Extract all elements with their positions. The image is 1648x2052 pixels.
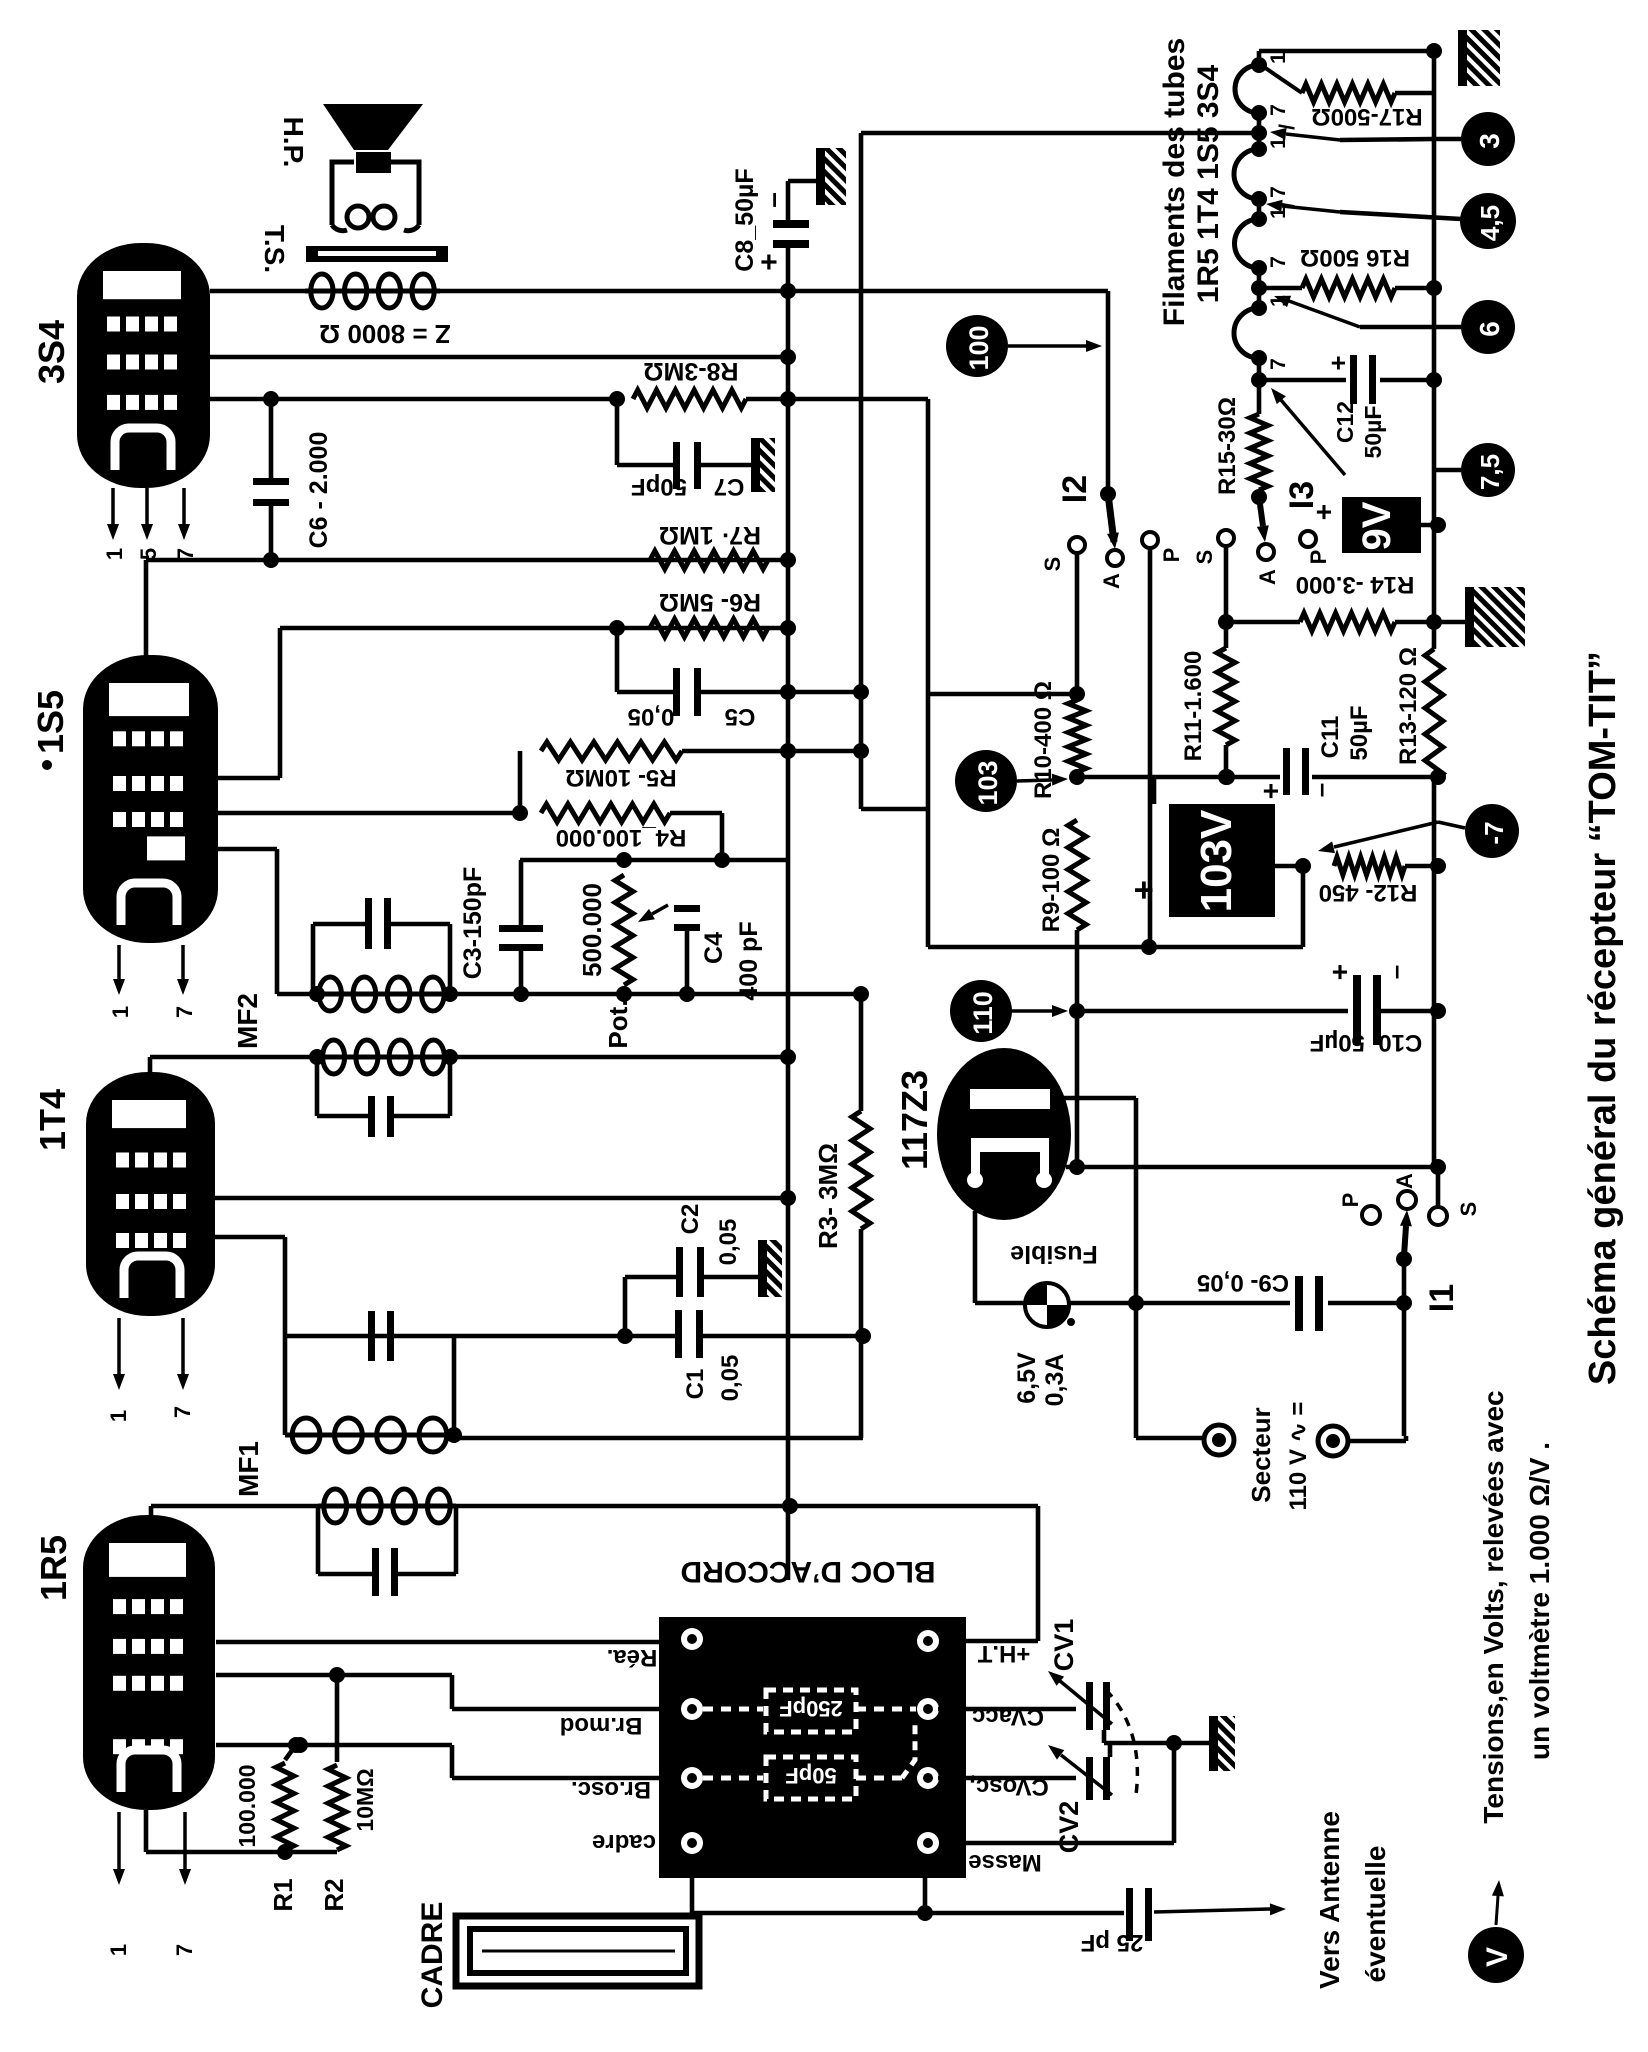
- capacitor C3 150pF: [519, 860, 524, 927]
- gang dashed link: [1106, 1690, 1137, 1795]
- svg-text:7: 7: [1267, 186, 1290, 198]
- wire MF2 to 1T4 grid and rail: [150, 1055, 788, 1060]
- wire 117Z3 plate lead: [1050, 1096, 1136, 1101]
- svg-text:Schéma général du récepteur: Schéma général du récepteur “TOM-TIT”: [1582, 651, 1624, 1385]
- svg-text:0,05: 0,05: [628, 703, 675, 730]
- V circle: [1468, 1927, 1524, 1983]
- svg-text:–: –: [1380, 965, 1410, 979]
- svg-text:9V: 9V: [1355, 501, 1399, 550]
- svg-text:-7: -7: [1479, 821, 1509, 844]
- svg-text:Masse: Masse: [968, 1849, 1041, 1876]
- svg-text:A: A: [1099, 573, 1124, 589]
- svg-text:C2: C2: [677, 1204, 704, 1235]
- svg-text:C5: C5: [725, 703, 756, 730]
- svg-text:500.000: 500.000: [577, 883, 607, 977]
- wire AVC bottom y994: [450, 992, 861, 997]
- ground C2: [758, 1240, 782, 1297]
- svg-text:6,5V: 6,5V: [1013, 1352, 1041, 1404]
- svg-text:+: +: [1324, 964, 1355, 980]
- capacitor C6 2000: [269, 399, 274, 480]
- svg-text:C6 - 2.000: C6 - 2.000: [305, 432, 333, 549]
- battery 9V: [1342, 497, 1421, 553]
- svg-text:1: 1: [106, 1410, 131, 1422]
- svg-text:3S4: 3S4: [31, 320, 72, 384]
- capacitor C1 0,05: [675, 1310, 682, 1358]
- svg-text:1T4: 1T4: [32, 1089, 73, 1151]
- wire 1R5 to Rea terminal: [216, 1640, 681, 1645]
- svg-text:7: 7: [1267, 358, 1290, 370]
- svg-text:C10. 50µF: C10. 50µF: [1310, 1029, 1423, 1056]
- tube 117Z3 rectifier: [937, 1048, 1071, 1220]
- svg-text:100: 100: [964, 325, 994, 370]
- rail (vertical bus x788): [786, 291, 791, 1580]
- svg-text:0,3A: 0,3A: [1041, 1354, 1069, 1407]
- svg-text:50pF: 50pF: [631, 473, 687, 500]
- svg-text:R12- 450: R12- 450: [1319, 879, 1418, 906]
- rail B x861: [859, 133, 864, 809]
- wire AVC top: [520, 858, 788, 863]
- svg-text:Réa.: Réa.: [607, 1644, 658, 1671]
- svg-text:P: P: [1306, 550, 1331, 565]
- svg-text:100.000: 100.000: [234, 1764, 260, 1847]
- svg-text:50µF: 50µF: [1346, 705, 1373, 760]
- svg-text:R8-3MΩ: R8-3MΩ: [643, 357, 738, 385]
- circled 3: [1340, 139, 1434, 140]
- pins 1 5 7 of 3S4: [111, 488, 115, 524]
- ground R14: [1465, 587, 1525, 647]
- wire y809: [861, 807, 928, 812]
- svg-text:R9-100 Ω: R9-100 Ω: [1038, 828, 1065, 933]
- variable capacitor CV1: [938, 1707, 1076, 1712]
- pins 1 7 of 1R5: [117, 1812, 121, 1869]
- fuse and heater wire: [973, 1211, 978, 1303]
- svg-text:7: 7: [1267, 256, 1290, 268]
- resistor R10 400ohm: [1068, 700, 1086, 772]
- wire MF1 to R3/C1 node: [454, 1436, 863, 1441]
- filament 1R5: [1234, 308, 1259, 358]
- terminal cadre: [681, 1832, 703, 1854]
- BLOC D ACCORD tuning block: [659, 1617, 966, 1878]
- svg-text:BLOC D’ACCORD: BLOC D’ACCORD: [681, 1555, 936, 1588]
- svg-text:1R5 1T4 1S5 3S4: 1R5 1T4 1S5 3S4: [1192, 64, 1225, 303]
- svg-text:CV2: CV2: [1054, 1801, 1084, 1854]
- resistor R1 100.000: [288, 1737, 304, 1753]
- svg-text:R11-1.600: R11-1.600: [1180, 651, 1207, 762]
- svg-text:MF2: MF2: [232, 993, 263, 1049]
- pins 1 7 of 1S5: [117, 945, 121, 979]
- battery 103V: [1169, 804, 1275, 917]
- terminal Br.mod: [681, 1698, 703, 1720]
- svg-text:S: S: [1040, 557, 1065, 572]
- svg-text:H.P.: H.P.: [278, 117, 309, 168]
- filament 1T4: [1234, 219, 1259, 268]
- svg-text:117Z3: 117Z3: [894, 1070, 935, 1170]
- resistor R4 100.000: [541, 804, 670, 822]
- svg-text:un voltmètre 1.000 Ω/V .: un voltmètre 1.000 Ω/V .: [1524, 1442, 1555, 1760]
- wire 103V line y777: [1077, 775, 1280, 780]
- resistor R14 3000: [1224, 546, 1229, 648]
- terminal +H.T: [917, 1630, 939, 1652]
- circled 6: [1360, 325, 1461, 330]
- fusible symbol: [1025, 1283, 1069, 1327]
- MF2 secondary tank: [317, 1055, 450, 1060]
- wire 1R5 to Br.mod: [216, 1673, 452, 1678]
- svg-text:Br.osc.: Br.osc.: [571, 1776, 651, 1803]
- svg-text:Secteur: Secteur: [1246, 1407, 1276, 1502]
- svg-text:4,5: 4,5: [1475, 205, 1505, 241]
- bias vertical x928: [926, 399, 931, 947]
- svg-text:C12: C12: [1332, 401, 1358, 443]
- svg-text:1: 1: [108, 1006, 133, 1018]
- tube 3S4 (output): [77, 243, 210, 488]
- wire to 1S5 top: [144, 560, 149, 660]
- resistor R7 1Mohm: [650, 551, 768, 569]
- svg-text:R7· 1MΩ: R7· 1MΩ: [659, 521, 761, 549]
- svg-text:Filaments des tubes: Filaments des tubes: [1158, 38, 1191, 326]
- svg-text:7: 7: [170, 1406, 195, 1418]
- svg-text:110: 110: [968, 991, 998, 1035]
- resistor R13 120ohm in rail: [1425, 649, 1443, 780]
- svg-text:7: 7: [1267, 104, 1290, 116]
- circled -7: [1465, 804, 1519, 858]
- svg-text:Br.mod: Br.mod: [560, 1712, 643, 1739]
- svg-text:cadre: cadre: [592, 1829, 656, 1856]
- svg-text:Vers Antenne: Vers Antenne: [1314, 1811, 1345, 1989]
- wire +HT line y1507: [456, 1504, 1038, 1509]
- svg-text:–: –: [757, 192, 788, 208]
- resistor R6 5Mohm: [650, 619, 768, 637]
- svg-text:Tensions,en Volts, relevées av: Tensions,en Volts, relevées avec: [1478, 1390, 1509, 1823]
- svg-text:/: /: [1276, 124, 1299, 130]
- Secteur terminals: [1136, 1436, 1204, 1441]
- svg-text:+: +: [1323, 355, 1353, 370]
- rail right x1434: [1432, 51, 1437, 649]
- svg-text:V: V: [1481, 1947, 1514, 1967]
- resistor R12 450: [1334, 857, 1405, 875]
- capacitor C8 50uF: [773, 220, 809, 228]
- tube 1R5 (converter): [83, 1515, 215, 1810]
- ground C7: [751, 438, 775, 492]
- svg-text:C11: C11: [1317, 716, 1344, 759]
- filament 1S5: [1234, 149, 1259, 199]
- svg-text:103V: 103V: [1192, 809, 1241, 912]
- circled 7,5: [1434, 468, 1461, 473]
- wire 1S5 grid3 line: [218, 811, 520, 816]
- capacitor C11 50uF: [1283, 748, 1290, 795]
- svg-text:1: 1: [106, 1944, 131, 1956]
- wire 3S4 plate to T.S. and HT rail: [210, 289, 305, 294]
- capacitor C2 0,05: [623, 1277, 628, 1336]
- svg-text:400 pF: 400 pF: [735, 921, 763, 1000]
- terminal Br.osc: [681, 1767, 703, 1789]
- svg-text:–: –: [1305, 783, 1335, 797]
- resistor R17 500ohm: [1261, 65, 1302, 93]
- filament chain: [1257, 51, 1262, 65]
- CV rotors to ground: [1102, 1730, 1107, 1743]
- svg-text:R1: R1: [268, 1878, 298, 1911]
- ground filament top: [1458, 30, 1500, 86]
- svg-text:+: +: [753, 253, 786, 271]
- svg-text:+: +: [1125, 880, 1163, 900]
- wire to 25pF: [692, 1911, 1124, 1916]
- svg-text:A: A: [1392, 1173, 1417, 1189]
- capacitor C4 400pF: [674, 905, 700, 912]
- svg-text:C3-150pF: C3-150pF: [459, 867, 487, 980]
- variable capacitor CV2: [938, 1776, 1076, 1781]
- svg-text:7: 7: [172, 1944, 197, 1956]
- svg-text:3: 3: [1474, 133, 1505, 149]
- CADRE frame antenna: [456, 1916, 699, 1986]
- wire 1S5 diode to MF2: [218, 847, 277, 852]
- wire 117Z3 cathode line: [1066, 1165, 1438, 1170]
- MF2 primary tank: [313, 922, 365, 927]
- svg-text:C4: C4: [700, 932, 728, 964]
- resistor R15 30ohm: [1250, 414, 1268, 490]
- svg-text:10MΩ: 10MΩ: [352, 1768, 378, 1831]
- svg-text:25 pF: 25 pF: [1081, 1929, 1144, 1956]
- pins 1 7 of 1T4: [117, 1318, 121, 1374]
- capacitor 25pF: [1126, 1888, 1133, 1941]
- svg-text:110 V ∿ =: 110 V ∿ =: [1285, 1402, 1312, 1511]
- svg-text:CV1: CV1: [1049, 1619, 1079, 1672]
- svg-text:7: 7: [172, 1006, 197, 1018]
- svg-text:Z = 8000 Ω: Z = 8000 Ω: [319, 319, 450, 349]
- svg-text:Pot.: Pot.: [603, 999, 633, 1048]
- wire y694 to R10: [928, 692, 1077, 697]
- svg-text:MF1: MF1: [233, 1441, 264, 1497]
- svg-text:C9- 0,05: C9- 0,05: [1197, 1269, 1289, 1296]
- ground CV: [1209, 1716, 1235, 1771]
- filament 3S4: [1235, 65, 1259, 113]
- capacitor C5 0,05: [615, 628, 620, 692]
- capacitor C12 50uF: [1259, 378, 1346, 383]
- svg-text:I2: I2: [1056, 475, 1094, 503]
- wire HT top y287: [788, 289, 1108, 294]
- MF1 primary tank: [149, 1506, 154, 1522]
- wire R6 line: [280, 626, 788, 631]
- svg-text:1S5: 1S5: [30, 690, 71, 754]
- terminal CVosc: [917, 1767, 939, 1789]
- circled 100: [946, 315, 1008, 377]
- speaker H.P.: [323, 104, 423, 150]
- circled 110: [950, 980, 1012, 1042]
- svg-text:C1: C1: [682, 1369, 709, 1400]
- filament rail top to ground: [1259, 49, 1434, 54]
- resistor R5 10Mohm: [518, 751, 523, 813]
- svg-text:R17-500Ω: R17-500Ω: [1311, 103, 1422, 130]
- S contact upper: [1218, 530, 1234, 546]
- svg-text:1: 1: [1267, 52, 1290, 64]
- svg-text:7,5: 7,5: [1475, 454, 1505, 490]
- resistor R9 100ohm: [1068, 820, 1086, 930]
- svg-text:R14 -3.000: R14 -3.000: [1296, 571, 1415, 598]
- wire rail B top corner: [861, 131, 1258, 136]
- svg-text:50µF: 50µF: [1360, 406, 1386, 459]
- wire 110 to C10: [1077, 1009, 1348, 1014]
- tube 1T4 (IF amp): [86, 1072, 215, 1316]
- resistor R8 3Mohm: [633, 390, 746, 408]
- svg-text:éventuelle: éventuelle: [1360, 1846, 1391, 1983]
- svg-text:103: 103: [973, 760, 1003, 805]
- svg-text:T.S.: T.S.: [259, 225, 290, 273]
- svg-text:CADRE: CADRE: [416, 1902, 449, 2009]
- wire 1T4 grid to C1: [215, 1235, 285, 1240]
- wire y396 extension to bias column: [788, 397, 928, 402]
- wire cadre terminal down: [690, 1854, 695, 1913]
- svg-text:Fusible: Fusible: [1010, 1240, 1098, 1268]
- capacitor C10 50uF: [1353, 975, 1361, 1045]
- internal 250pF dashed: [703, 1707, 763, 1712]
- svg-text:1: 1: [1267, 137, 1290, 149]
- terminal Masse: [917, 1832, 939, 1854]
- ground near C8: [816, 148, 846, 205]
- wire Masse to rotors: [939, 1841, 1174, 1846]
- wire 3S4 grid row / R8: [210, 397, 617, 402]
- wire 1T4 plate line: [215, 1196, 788, 1201]
- terminal Rea: [681, 1628, 703, 1650]
- capacitor C9 0,05: [1136, 1301, 1290, 1306]
- resistor R2 10Mohm: [335, 1675, 340, 1762]
- wire 1R5 osc grid to Br.osc: [216, 1743, 452, 1748]
- transformer T.S. core: [306, 246, 448, 262]
- svg-text:P: P: [1159, 548, 1184, 563]
- svg-text:+: +: [1308, 504, 1339, 520]
- antenna arrow: [1154, 1909, 1270, 1912]
- svg-text:R6- 5MΩ: R6- 5MΩ: [659, 588, 761, 616]
- svg-text:50pF: 50pF: [785, 1763, 836, 1788]
- svg-text:R3- 3MΩ: R3- 3MΩ: [813, 1143, 843, 1249]
- circled 4,5: [1340, 212, 1461, 219]
- svg-text:R2: R2: [319, 1878, 349, 1911]
- wire R7 line: [146, 558, 788, 563]
- svg-text:A: A: [1255, 569, 1280, 585]
- capacitor C7 50pF: [615, 399, 620, 465]
- svg-text:R15-30Ω: R15-30Ω: [1214, 397, 1241, 495]
- resistor R16 500ohm: [1302, 279, 1395, 297]
- MF1 secondary tank: [368, 1311, 375, 1361]
- svg-text:R5- 10MΩ: R5- 10MΩ: [565, 764, 676, 791]
- svg-text:0,05: 0,05: [715, 1219, 742, 1266]
- svg-text:+H.T: +H.T: [977, 1640, 1030, 1667]
- svg-text:R4_100.000: R4_100.000: [556, 824, 687, 851]
- switch I2: [1108, 494, 1114, 542]
- terminal CVacc: [917, 1698, 939, 1720]
- tube 1S5 (det/AF): [83, 655, 218, 943]
- svg-text:250pF: 250pF: [779, 1696, 843, 1721]
- svg-text:6: 6: [1474, 321, 1505, 337]
- transformer T.S. primary: [305, 289, 440, 294]
- svg-text:I1: I1: [1423, 1284, 1461, 1312]
- svg-text:0,05: 0,05: [717, 1355, 744, 1402]
- svg-text:C7: C7: [714, 473, 745, 500]
- wire 3S4 screen row: [210, 355, 788, 360]
- svg-text:1R5: 1R5: [33, 1535, 74, 1601]
- potentiometer 500.000 Pot.: [615, 875, 633, 985]
- resistor R11 1600: [1217, 648, 1235, 745]
- switch I3: [1259, 497, 1263, 526]
- circled 103: [955, 750, 1017, 812]
- svg-text:P: P: [1338, 1193, 1363, 1208]
- svg-text:R16 500Ω: R16 500Ω: [1300, 244, 1410, 271]
- resistor R3 3Mohm: [859, 994, 864, 1111]
- svg-text:S: S: [1192, 550, 1217, 565]
- svg-text:+: +: [1255, 783, 1286, 799]
- wire battery minus y947: [928, 945, 1303, 950]
- wire 1R5 cathode bottom: [146, 1850, 337, 1855]
- svg-text:R13-120 Ω: R13-120 Ω: [1395, 647, 1422, 765]
- internal 50pF dashed: [703, 1776, 763, 1781]
- svg-text:1: 1: [102, 548, 127, 560]
- svg-text:S: S: [1456, 1202, 1481, 1217]
